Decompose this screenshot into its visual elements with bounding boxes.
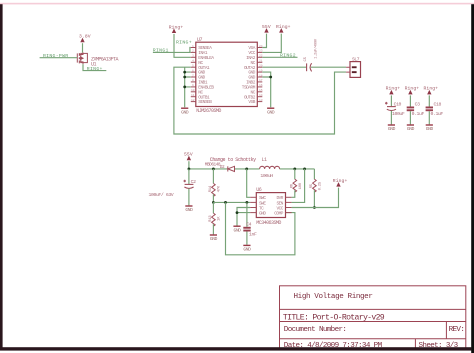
power Ring+ (C18) <box>424 86 439 95</box>
svg-text:13: 13 <box>259 99 263 102</box>
svg-text:47K: 47K <box>217 185 221 192</box>
svg-text:9: 9 <box>192 84 194 87</box>
svg-text:100: 100 <box>299 182 303 189</box>
U7 left pin names <box>198 46 214 105</box>
junction node 55V rail / C2 <box>188 168 191 171</box>
svg-text:COMP: COMP <box>274 212 284 217</box>
capacitor C18 0.1uF <box>426 107 433 112</box>
svg-text:RING2: RING2 <box>280 53 296 59</box>
svg-text:2: 2 <box>192 50 194 53</box>
svg-text:Ring+: Ring+ <box>276 24 291 30</box>
power Ring+ arrow (left of U7) <box>169 24 184 32</box>
junction node SWE / C4 <box>246 201 249 204</box>
capacitor C4 1nF <box>246 202 248 226</box>
svg-text:Ring+: Ring+ <box>405 86 420 92</box>
svg-text:14: 14 <box>259 94 263 97</box>
resistor R13 1K <box>212 202 214 213</box>
ground (TC/GND) <box>233 226 241 233</box>
power 3.8V symbol <box>79 34 91 42</box>
junction U7 right GND bus <box>269 76 272 79</box>
svg-text:TITLE: Port-O-Rotary-v29: TITLE: Port-O-Rotary-v29 <box>283 313 385 322</box>
wire SEN tap <box>292 169 305 203</box>
svg-text:C10: C10 <box>394 101 402 107</box>
svg-text:100uH: 100uH <box>260 173 273 179</box>
junction node rail / SWC <box>245 168 248 171</box>
power Ring+ (above U7) <box>276 24 291 33</box>
svg-text:High Voltage Ringer: High Voltage Ringer <box>294 293 373 301</box>
wire feedback node to SWE <box>213 201 250 203</box>
svg-text:MBD6148: MBD6148 <box>205 163 221 168</box>
transistor U1 ZXMP6A13FTA (P-MOSFET) <box>77 53 87 65</box>
svg-text:19: 19 <box>259 69 263 72</box>
ground (C10) <box>388 125 396 132</box>
svg-text:C18: C18 <box>434 101 442 107</box>
U6 pin stubs <box>250 197 291 212</box>
svg-text:R14: R14 <box>209 185 213 192</box>
svg-text:L1: L1 <box>262 157 268 163</box>
junction U7 GND bus pin6 <box>183 71 186 74</box>
junction node rail / R6 <box>293 168 296 171</box>
svg-text:3.8V: 3.8V <box>79 34 91 40</box>
svg-text:Ring+: Ring+ <box>386 86 401 92</box>
ground (R13) <box>210 235 218 242</box>
junction node R5 / VCC wire <box>313 206 316 209</box>
svg-text:Ring+: Ring+ <box>333 178 348 184</box>
U7 pin numbers <box>191 45 263 102</box>
wire Ring+ down to ENABLEA <box>174 34 191 57</box>
svg-text:15: 15 <box>259 89 263 92</box>
power Ring+ (C3) <box>405 86 420 95</box>
power 55V (boost output) <box>184 152 193 160</box>
svg-text:3: 3 <box>192 55 194 58</box>
junction node rail / SEN tap <box>303 168 306 171</box>
junction node rail / R14 <box>212 168 215 171</box>
svg-text:C2: C2 <box>191 179 196 185</box>
right GND bus of U7 <box>262 72 270 107</box>
wire TC and GND to ground <box>237 208 250 226</box>
capacitor C2 100uF/63V (polarized) <box>188 169 190 184</box>
resistor R5 0.25 <box>313 169 315 179</box>
svg-text:8: 8 <box>192 79 194 82</box>
svg-text:Document Number:: Document Number: <box>284 326 347 334</box>
ground (right of U7) <box>267 108 275 115</box>
top rail of boost section <box>189 168 315 170</box>
svg-text:GND: GND <box>259 212 266 217</box>
capacitor C5 1.2uF/400V (polarized, horizontal) <box>307 63 312 71</box>
junction U7 GND bus pin9 <box>183 86 186 89</box>
svg-text:0.1uF: 0.1uF <box>431 111 444 117</box>
svg-text:SL7: SL7 <box>352 56 360 62</box>
svg-text:RING+: RING+ <box>87 66 103 72</box>
svg-text:MC34063SMD: MC34063SMD <box>256 220 281 226</box>
svg-text:NJM2670SMD: NJM2670SMD <box>196 108 221 114</box>
resistor R6 100 <box>294 169 296 179</box>
svg-text:0.1uF: 0.1uF <box>412 111 425 117</box>
wire C5 to SL7 pin1 <box>311 66 346 68</box>
U7 right pin stubs <box>257 48 262 102</box>
connector SL7 <box>346 56 360 77</box>
svg-text:12: 12 <box>191 99 195 102</box>
U7 right pin names <box>242 46 256 105</box>
svg-text:0.25: 0.25 <box>319 181 323 190</box>
svg-text:21: 21 <box>259 60 263 63</box>
svg-text:7: 7 <box>192 74 194 77</box>
svg-text:C4: C4 <box>246 222 251 228</box>
wire RING1 to INA1 and SENSEA <box>153 48 191 53</box>
svg-text:RING+: RING+ <box>176 40 192 46</box>
inductor L1 100uH <box>260 166 280 169</box>
wire rail to SWC <box>247 169 251 197</box>
svg-text:Ring+: Ring+ <box>424 86 439 92</box>
power Ring+ (C10) <box>386 86 401 95</box>
svg-text:U7: U7 <box>197 37 203 43</box>
svg-text:C3: C3 <box>415 101 420 107</box>
svg-text:17: 17 <box>259 79 263 82</box>
svg-text:24: 24 <box>259 45 263 48</box>
svg-text:55V: 55V <box>184 152 193 158</box>
ground (C18) <box>426 125 434 132</box>
wire U1 source to RING+ stub <box>83 64 106 70</box>
svg-text:5: 5 <box>192 65 194 68</box>
svg-text:6: 6 <box>192 69 194 72</box>
IC U7 NJM2670SMD <box>196 37 257 114</box>
ground (C2) <box>185 206 193 213</box>
junction node SWE / COMP loop <box>224 201 227 204</box>
left GND bus of U7 <box>185 67 191 107</box>
svg-text:16: 16 <box>259 84 263 87</box>
svg-text:1: 1 <box>192 45 194 48</box>
svg-text:Ring+: Ring+ <box>169 24 184 30</box>
svg-text:100uF/ 63V: 100uF/ 63V <box>149 192 174 198</box>
svg-text:R13: R13 <box>209 215 213 222</box>
resistor R14 47K <box>212 169 214 184</box>
IC U6 MC34063SMD <box>256 187 285 226</box>
ground (C4) <box>243 245 251 252</box>
svg-text:100uF: 100uF <box>392 111 405 117</box>
junction node TC-GND bus <box>236 211 239 214</box>
U6 pin names <box>259 196 266 216</box>
U7 left pin stubs 1-12 <box>191 48 196 102</box>
ground (C3) <box>407 125 415 132</box>
power Ring+ (bottom) <box>333 178 348 187</box>
svg-text:SENSEB: SENSEB <box>198 100 212 105</box>
svg-text:1nF: 1nF <box>249 231 257 237</box>
junction node R14/R13/SWE <box>212 201 215 204</box>
wire Ring+ to VCC <box>262 34 281 53</box>
net RING2 stub <box>262 56 297 58</box>
wire OUTA2 to C5 <box>262 66 306 68</box>
ground (left of U7) <box>181 108 189 115</box>
capacitor C10 100uF (polarized) <box>385 102 396 111</box>
junction U7 GND bus pin7 <box>183 76 186 79</box>
svg-text:U6: U6 <box>256 187 262 193</box>
capacitor C3 0.1uF <box>407 107 414 112</box>
power 55V (above U7) <box>262 24 271 33</box>
svg-text:REV:: REV: <box>449 326 465 334</box>
wire COMP loop <box>226 202 295 254</box>
svg-text:VSB: VSB <box>248 100 255 105</box>
wire 55V to VSA <box>262 34 266 48</box>
wire OUTA1 long loop to SL7 pin2 <box>174 67 346 134</box>
svg-text:10: 10 <box>191 89 195 92</box>
svg-text:11: 11 <box>191 94 195 97</box>
svg-text:4: 4 <box>192 60 194 63</box>
svg-text:RING-PWR: RING-PWR <box>43 53 68 59</box>
wire 3.8V to U1 drain <box>82 43 84 52</box>
svg-text:18: 18 <box>259 74 263 77</box>
wire Ring+ to VCC <box>292 188 339 208</box>
net RING-PWR wire to gate <box>40 57 78 59</box>
svg-text:22: 22 <box>259 55 263 58</box>
svg-text:1.2uF/400V: 1.2uF/400V <box>313 38 318 59</box>
svg-text:23: 23 <box>259 50 263 53</box>
svg-text:20: 20 <box>259 65 263 68</box>
diode D2 MBD6148 <box>228 166 235 171</box>
